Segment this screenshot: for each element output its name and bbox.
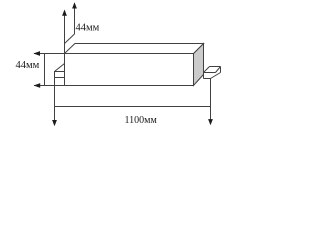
right tab top back edge <box>210 66 221 68</box>
right tab top front edge <box>204 72 216 74</box>
up arrowhead right <box>72 2 77 8</box>
down arrowhead bottom-right <box>208 119 213 125</box>
beam top face <box>65 44 204 54</box>
right tab bottom front edge <box>204 78 211 80</box>
svg-text:44мм: 44мм <box>76 23 100 34</box>
left dimension top arrow line <box>34 53 65 55</box>
right tab body fill <box>204 67 221 79</box>
right tab bottom depth edge <box>211 73 221 79</box>
right tab top-left depth edge <box>204 67 210 73</box>
top dimension diagonal connector <box>65 34 75 44</box>
right tab back-right vertical edge <box>220 67 222 73</box>
left arrowhead bottom <box>34 83 41 88</box>
up arrowhead left <box>62 10 67 16</box>
svg-text:1100мм: 1100мм <box>125 115 158 126</box>
beam front face <box>65 54 194 86</box>
top dimension extension line right <box>74 3 76 34</box>
top dimension extension line left <box>64 11 66 54</box>
right tab left vertical edge <box>203 73 205 79</box>
left dimension vertical connector <box>44 54 46 86</box>
left tab top depth edge <box>55 64 65 72</box>
bottom left extension line <box>54 72 56 122</box>
svg-text:44мм: 44мм <box>16 60 40 71</box>
bottom right extension line <box>210 79 212 121</box>
left dimension bottom arrow line <box>34 85 64 87</box>
left tab front face <box>55 72 65 78</box>
left arrowhead top <box>33 51 40 56</box>
right tab top-right depth edge <box>216 67 221 73</box>
beam right face (shaded) <box>194 44 204 86</box>
down arrowhead bottom-left <box>52 120 57 126</box>
bottom dimension line <box>55 106 211 108</box>
